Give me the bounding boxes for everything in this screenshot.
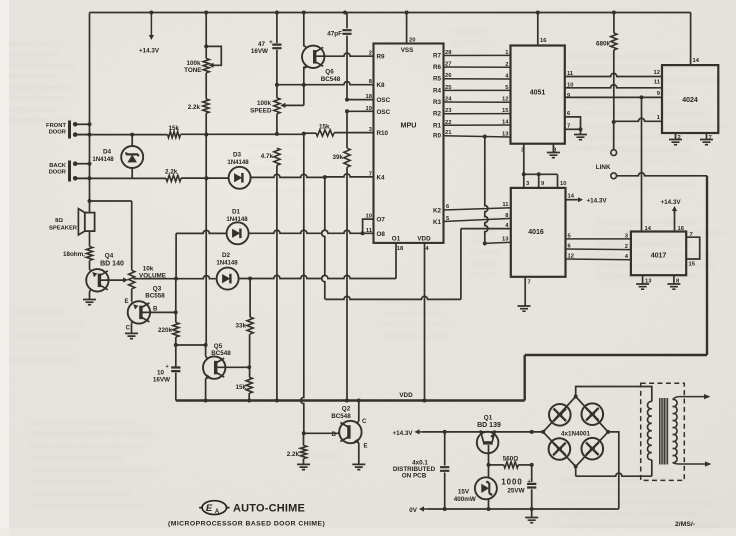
svg-text:ON PCB: ON PCB <box>402 473 427 480</box>
svg-text:D4: D4 <box>103 149 112 156</box>
svg-text:OSC: OSC <box>377 109 391 116</box>
ground 0V <box>525 509 538 523</box>
wire Q5 emitter <box>205 379 207 401</box>
switch BACK DOOR <box>49 161 90 182</box>
svg-text:14: 14 <box>568 194 575 200</box>
wire bus to 33k <box>249 279 251 318</box>
svg-text:OSC: OSC <box>377 97 391 104</box>
+14.3V input arrow <box>392 429 424 437</box>
svg-text:19: 19 <box>366 106 373 112</box>
wire TONE column <box>204 13 208 59</box>
svg-text:R0: R0 <box>433 133 442 140</box>
transistor Q5 BC548 <box>203 343 231 379</box>
svg-text:R3: R3 <box>433 99 442 106</box>
LINK jumper <box>596 122 617 179</box>
svg-text:4024: 4024 <box>682 97 698 104</box>
wire 33k to Q5 base <box>249 334 251 377</box>
wire Q2 base column <box>301 134 306 436</box>
svg-text:+: + <box>528 479 531 485</box>
ground 4051 pin8 <box>547 144 560 158</box>
transistor Q2 BC548 <box>331 406 367 450</box>
wire Q4 to ground <box>89 291 91 299</box>
wire O7 stub <box>363 219 374 233</box>
wire secondary bottom arrow <box>673 461 712 466</box>
svg-text:+14.3V: +14.3V <box>392 430 413 437</box>
capacitor 1000 25VW <box>501 465 536 509</box>
svg-text:+: + <box>269 39 273 46</box>
wire K2 to 4016 pin11 <box>433 204 511 215</box>
4016 right pin numbers <box>568 233 574 259</box>
svg-text:(MICROPROCESSOR BASED DOOR CHI: (MICROPROCESSOR BASED DOOR CHIME) <box>168 521 325 528</box>
svg-text:18: 18 <box>366 94 373 100</box>
potentiometer 10k VOLUME <box>123 266 166 289</box>
resistor 4.7k <box>261 148 280 165</box>
svg-text:4.7k: 4.7k <box>261 153 274 160</box>
wire rail to speaker <box>90 200 132 202</box>
svg-text:2: 2 <box>369 51 372 57</box>
ground 4017 pin13 <box>636 275 652 289</box>
svg-text:AUTO-CHIME: AUTO-CHIME <box>233 503 305 515</box>
svg-text:R5: R5 <box>433 76 442 83</box>
wire 4016 pin6 to 4017 pin2 <box>566 244 631 250</box>
wire TONE column to Q5 <box>205 135 207 345</box>
svg-text:DOOR: DOOR <box>49 130 67 136</box>
wire K4 branch <box>322 177 325 299</box>
wire 345 junction <box>176 343 208 347</box>
wire secondary top arrow <box>673 394 711 400</box>
wire VDD net right side <box>525 176 707 401</box>
svg-text:7: 7 <box>528 280 531 286</box>
svg-text:1000: 1000 <box>501 478 522 487</box>
svg-text:16VW: 16VW <box>153 377 170 384</box>
svg-text:O8: O8 <box>377 231 386 238</box>
svg-text:BC548: BC548 <box>321 76 341 83</box>
wire LINK to VDD net <box>617 173 707 176</box>
svg-text:E: E <box>206 503 213 514</box>
capacitor 4x0.1 <box>393 432 449 509</box>
wire O6 bus <box>176 230 373 235</box>
transistor Q3 BC558 <box>124 286 165 332</box>
svg-text:11: 11 <box>502 202 509 208</box>
resistor 2.2k q2 <box>287 433 307 458</box>
svg-text:4051: 4051 <box>530 90 546 97</box>
svg-text:D1: D1 <box>232 209 241 216</box>
wire bridge bottom to transformer <box>576 460 652 476</box>
svg-text:K2: K2 <box>433 208 442 215</box>
svg-text:4017: 4017 <box>651 253 667 260</box>
svg-text:2.2k: 2.2k <box>287 451 300 458</box>
wire 4051 pin10 to 4024 pin11 <box>565 85 662 88</box>
svg-text:2: 2 <box>625 244 628 250</box>
4016 pin14 +14.3V <box>566 194 608 205</box>
svg-text:K4: K4 <box>377 174 386 181</box>
svg-text:10: 10 <box>560 181 566 187</box>
svg-text:15V: 15V <box>458 489 470 496</box>
svg-text:BD 140: BD 140 <box>100 261 124 268</box>
capacitor 47pF <box>327 13 351 100</box>
ground 4051 pins6-7 <box>574 129 587 139</box>
svg-text:BD 139: BD 139 <box>477 422 501 429</box>
svg-text:VDD: VDD <box>399 392 413 399</box>
wire 680k down to LINK <box>612 50 616 124</box>
svg-text:+14.3V: +14.3V <box>587 197 608 204</box>
svg-text:20: 20 <box>409 38 415 44</box>
svg-text:11: 11 <box>654 80 661 86</box>
svg-text:LINK: LINK <box>596 164 611 171</box>
svg-text:2: 2 <box>678 135 681 141</box>
IC U4 4016 box <box>511 188 566 277</box>
transistor Q1 BD139 <box>477 415 501 454</box>
resistor 18ohm <box>63 247 93 261</box>
IC U5 4017 box <box>631 232 686 276</box>
wire VDD bus <box>176 392 525 402</box>
svg-text:E: E <box>364 444 368 450</box>
wire to volume pot <box>131 201 133 270</box>
wire audio bus O1 <box>134 243 397 281</box>
svg-text:2: 2 <box>505 62 508 68</box>
wire O8 to 4016 pin4 <box>325 229 511 300</box>
MPU bottom pin labels <box>392 236 431 253</box>
svg-text:10: 10 <box>366 214 372 220</box>
svg-text:DOOR: DOOR <box>49 170 67 176</box>
svg-text:E: E <box>124 299 128 305</box>
wire 4051 pin11 to 4024 pin12 <box>565 73 662 76</box>
wire R0 to 4051 pin13 <box>444 135 511 139</box>
ground 4017 pin8 <box>667 275 680 289</box>
4017 pin7-15 loop <box>686 232 700 268</box>
svg-text:18ohm,: 18ohm, <box>63 251 85 258</box>
svg-text:C: C <box>362 419 367 425</box>
resistor 560ohm <box>489 455 534 468</box>
svg-text:12: 12 <box>502 97 508 103</box>
svg-text:1N4148: 1N4148 <box>226 216 248 223</box>
diode D4 1N4148 <box>92 135 143 179</box>
wire O1 pin down <box>395 242 397 244</box>
wire Q2 collector <box>358 401 360 422</box>
wire 4051 pin7 <box>565 127 583 131</box>
wires R7-R1 to 4051 <box>444 55 511 125</box>
wire OSC pin19 stub <box>347 110 374 112</box>
wire 39k column <box>345 98 349 401</box>
4051 right pin numbers <box>567 71 574 130</box>
svg-text:MPU: MPU <box>401 121 417 130</box>
ground below Q3 <box>125 333 138 338</box>
svg-text:+: + <box>166 364 169 370</box>
wire 4051 pin3 down <box>523 144 525 175</box>
svg-text:0V: 0V <box>409 507 418 514</box>
wire 18ohm to Q4 <box>89 260 91 269</box>
resistor 15k R10 <box>316 124 334 137</box>
zener 15V 400mW <box>454 465 497 509</box>
bridge node wires <box>543 395 610 469</box>
svg-text:2.2k: 2.2k <box>165 169 178 176</box>
resistor 680k <box>596 13 617 51</box>
wire Q6 emitter to K8 <box>303 67 305 85</box>
svg-text:2.2k: 2.2k <box>188 104 201 111</box>
svg-text:R7: R7 <box>433 53 442 60</box>
svg-text:K1: K1 <box>433 219 442 226</box>
bridge diode 4 <box>582 438 604 460</box>
svg-text:10: 10 <box>157 370 165 377</box>
ground below 2.2k <box>297 459 310 470</box>
wire 2.2k to junction <box>205 113 207 134</box>
wire D3 to K4 pin <box>251 174 374 179</box>
svg-text:D3: D3 <box>233 152 242 159</box>
wire cap to SPEED pot <box>276 85 278 98</box>
ground 4024 pin7 <box>700 133 713 145</box>
logo EA <box>199 501 229 515</box>
MPU top pin VSS <box>401 13 416 55</box>
4016 top pin numbers <box>526 181 566 187</box>
wire back-door to 2.2k <box>77 177 166 179</box>
potentiometer 100k SPEED <box>250 85 304 114</box>
wire bus to 220k <box>175 279 177 323</box>
resistor 2.2k back-door <box>165 169 181 182</box>
svg-text:400mW: 400mW <box>454 496 476 503</box>
wire 4024 pin9 branch to 4017 <box>641 97 643 231</box>
resistor 15k front-door <box>168 125 181 138</box>
IC U1 MPU box <box>374 44 444 243</box>
capacitor 10 16VW <box>153 364 181 401</box>
svg-text:4x1N4001: 4x1N4001 <box>561 430 591 437</box>
4024 pin14 stub <box>691 13 700 66</box>
svg-text:14: 14 <box>645 226 652 232</box>
title AUTO-CHIME <box>233 503 305 515</box>
svg-text:13: 13 <box>502 237 509 243</box>
IC U2 4051 box <box>511 46 565 144</box>
svg-text:25VW: 25VW <box>507 488 524 495</box>
wire Q2 base <box>304 432 340 434</box>
svg-text:13: 13 <box>502 132 509 138</box>
resistor 2.2k tone <box>188 99 209 113</box>
label 2/MS/- <box>675 521 695 528</box>
4051 pin16 stub <box>538 13 547 46</box>
svg-text:16: 16 <box>540 38 547 44</box>
wire Q1 emitter down <box>487 445 491 467</box>
ground 4024 pin2 <box>669 133 682 145</box>
svg-text:1N4148: 1N4148 <box>92 156 114 163</box>
svg-text:14: 14 <box>693 58 700 64</box>
resistor 15k q5 <box>235 377 252 393</box>
svg-text:8Ω: 8Ω <box>55 218 63 224</box>
svg-text:Q6: Q6 <box>325 69 334 76</box>
svg-text:18: 18 <box>397 246 404 252</box>
wire Q2 emitter to ground <box>358 443 360 464</box>
svg-text:+14.3V: +14.3V <box>139 48 160 55</box>
IC U3 4024 box <box>662 65 718 133</box>
svg-text:D2: D2 <box>222 252 231 259</box>
svg-text:10k: 10k <box>143 266 154 273</box>
wire K1 to 4016 pin8 <box>433 216 511 226</box>
svg-text:+14.3V: +14.3V <box>661 199 682 206</box>
wire 15k to MPU R10 <box>130 132 316 137</box>
wire bridge top to transformer <box>576 387 652 402</box>
svg-text:39k: 39k <box>332 154 343 161</box>
svg-text:12: 12 <box>654 70 660 76</box>
svg-text:15k: 15k <box>235 384 246 391</box>
bridge diode 2 <box>582 403 604 425</box>
svg-text:16VW: 16VW <box>251 48 268 55</box>
wire SPEED to R10 wire <box>276 114 278 133</box>
wire 4.7k to bus <box>276 165 278 400</box>
diode D2 1N4148 <box>216 252 238 290</box>
wire pot to Q3 <box>131 289 133 302</box>
svg-text:680k: 680k <box>596 41 611 48</box>
svg-text:R2: R2 <box>433 111 442 118</box>
svg-text:BC548: BC548 <box>331 413 351 420</box>
wire Q6 collector column <box>303 13 305 47</box>
svg-text:SPEED: SPEED <box>250 107 272 114</box>
wire bridge right to 0V <box>608 432 619 509</box>
resistor 220k <box>158 323 179 338</box>
wire Q3 collector to ground <box>131 323 133 333</box>
MPU left pin labels <box>366 51 391 238</box>
svg-text:FRONT: FRONT <box>46 123 66 129</box>
wire front-door to R10 <box>77 134 168 136</box>
svg-text:560Ω: 560Ω <box>503 455 519 462</box>
bridge diode 3 <box>549 438 571 460</box>
svg-text:R4: R4 <box>433 87 442 94</box>
wire 15k to R10 pin <box>334 132 374 134</box>
svg-text:1N4148: 1N4148 <box>227 159 249 166</box>
svg-text:BC558: BC558 <box>145 293 165 300</box>
speaker 8ohm <box>49 209 95 247</box>
svg-text:R6: R6 <box>433 64 442 71</box>
4051 bottom pin labels <box>521 148 557 154</box>
4024 left pin numbers <box>654 70 661 121</box>
wire 4024 pin1 <box>614 118 662 121</box>
svg-text:O1: O1 <box>392 236 401 243</box>
bridge diode 1 <box>549 404 571 426</box>
ground below Q4 <box>83 300 96 305</box>
svg-text:15k: 15k <box>319 124 330 131</box>
wire OSC pin18 stub <box>347 99 374 101</box>
svg-text:220k: 220k <box>158 327 173 334</box>
wire Q4 base to pot <box>101 279 124 281</box>
wire 4051 pin6 <box>565 117 581 129</box>
svg-text:A: A <box>215 509 220 515</box>
svg-text:15: 15 <box>689 262 696 268</box>
svg-text:Q2: Q2 <box>342 406 351 413</box>
4016 pin7 ground <box>518 277 531 311</box>
wire 220k to cap <box>174 337 178 367</box>
svg-text:BACK: BACK <box>49 163 67 169</box>
svg-text:Q4: Q4 <box>105 253 114 260</box>
label 4x1N4001 <box>561 430 591 437</box>
wire Q3 base <box>143 310 178 314</box>
svg-text:16: 16 <box>678 226 685 232</box>
svg-text:100k: 100k <box>186 60 201 67</box>
svg-text:33k: 33k <box>235 323 246 330</box>
4017 pin16 +14.3V <box>661 199 685 232</box>
svg-text:TONE: TONE <box>184 67 201 74</box>
diode D3 1N4148 <box>227 152 250 189</box>
svg-text:11: 11 <box>366 228 373 234</box>
wire 4016 pin12 to 4017 pin4 <box>566 254 631 260</box>
wire Q5 collector <box>205 345 207 356</box>
0V input arrow <box>409 506 428 514</box>
4017 pin14 label <box>645 226 652 232</box>
svg-text:47: 47 <box>258 41 266 48</box>
svg-text:15: 15 <box>502 108 509 114</box>
resistor 39k <box>332 148 350 167</box>
MPU right pin labels <box>433 50 452 140</box>
potentiometer 100k TONE <box>184 46 221 74</box>
+14.3V supply arrow <box>139 14 160 55</box>
wire MPU VDD pin to bus <box>424 243 426 401</box>
svg-text:C: C <box>126 326 131 332</box>
svg-text:Q5: Q5 <box>214 343 223 350</box>
svg-text:Q1: Q1 <box>484 415 493 422</box>
svg-text:VSS: VSS <box>401 47 414 54</box>
wire +14.3V line <box>423 430 545 434</box>
svg-text:SPEAKER: SPEAKER <box>49 226 78 232</box>
wire 2.2k to D3 <box>181 176 229 180</box>
wire 4051 pin9 to 4024 pin9 <box>565 95 662 99</box>
svg-text:R1: R1 <box>433 122 442 129</box>
svg-text:K8: K8 <box>377 82 386 89</box>
svg-text:Q3: Q3 <box>153 286 162 293</box>
wire Q6 base to R9 <box>316 53 374 56</box>
transformer T1 <box>641 383 685 480</box>
4016 left pin numbers <box>502 202 509 243</box>
resistor 33k <box>235 317 253 334</box>
wire Q5 base <box>218 365 252 369</box>
wire 4016 pin5 to 4017 pin3 <box>566 233 631 239</box>
wire K8 bus <box>275 82 374 87</box>
svg-text:VDD: VDD <box>417 236 431 243</box>
diode D1 1N4148 <box>226 209 248 245</box>
wire top supply rail <box>90 11 691 15</box>
wire 0V line <box>428 507 619 511</box>
wire TONE to 2.2k <box>205 73 207 99</box>
svg-text:7: 7 <box>369 171 372 177</box>
svg-text:O7: O7 <box>377 217 386 224</box>
svg-text:1N4148: 1N4148 <box>216 259 238 266</box>
capacitor 47 16VW <box>251 13 282 85</box>
transistor Q6 BC548 <box>302 46 341 83</box>
wire left rail <box>88 13 92 214</box>
ground below Q2 <box>352 464 365 469</box>
transistor Q4 BD140 <box>86 253 124 292</box>
svg-text:7: 7 <box>709 135 712 141</box>
svg-text:14: 14 <box>502 120 509 126</box>
svg-text:47pF: 47pF <box>327 31 342 38</box>
svg-text:4016: 4016 <box>528 229 544 236</box>
wire R0 branch to 4016 pin13 <box>483 137 512 246</box>
4051 left pin numbers <box>502 50 509 138</box>
svg-text:R9: R9 <box>377 54 386 61</box>
svg-text:BC548: BC548 <box>211 350 231 357</box>
svg-text:R10: R10 <box>377 130 389 137</box>
subtitle <box>168 521 325 528</box>
wire 4051 pin3 to 4016 <box>522 172 558 188</box>
switch FRONT DOOR <box>46 121 89 139</box>
svg-text:2/MS/-: 2/MS/- <box>675 521 695 528</box>
wire 15k to VDD bus <box>248 393 250 400</box>
svg-text:15k: 15k <box>169 125 180 132</box>
wire D1 branch down <box>175 233 177 278</box>
svg-text:100k: 100k <box>257 100 272 107</box>
